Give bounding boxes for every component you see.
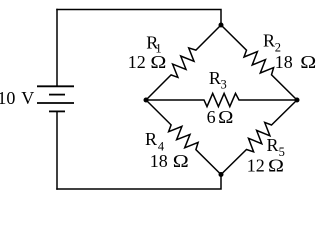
svg-text:18: 18	[275, 52, 293, 72]
svg-text:12: 12	[247, 156, 265, 176]
svg-text:18: 18	[150, 151, 168, 171]
svg-text:R: R	[209, 68, 221, 88]
svg-text:10 V: 10 V	[0, 88, 34, 108]
svg-text:Ω: Ω	[268, 156, 284, 176]
svg-text:R: R	[263, 30, 275, 50]
svg-text:Ω: Ω	[218, 107, 233, 127]
svg-text:R: R	[267, 135, 279, 155]
svg-text:Ω: Ω	[300, 52, 316, 72]
svg-text:Ω: Ω	[150, 52, 166, 72]
svg-text:3: 3	[221, 78, 227, 92]
svg-text:6: 6	[207, 107, 216, 127]
svg-text:12: 12	[128, 52, 146, 72]
svg-text:Ω: Ω	[173, 151, 189, 171]
svg-text:R: R	[145, 129, 157, 149]
